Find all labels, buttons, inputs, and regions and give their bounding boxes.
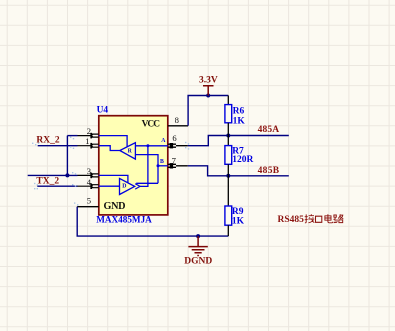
resistor R7 body <box>225 146 232 165</box>
wire RX_2 net to pin 1 <box>38 145 78 147</box>
svg-text:7: 7 <box>172 155 177 165</box>
svg-text:4: 4 <box>87 177 92 187</box>
resistor R9 lead top <box>227 176 229 206</box>
driver triangle D <box>120 178 135 194</box>
interior trace D output to A <box>140 146 148 187</box>
svg-text:R6: R6 <box>233 107 245 117</box>
CJK glyph dian (electric) <box>325 214 333 223</box>
interior trace B to R input <box>135 155 158 184</box>
power port 3.3V <box>203 86 214 96</box>
ground symbol DGND <box>188 236 207 255</box>
compile mask dots near pin6 <box>185 142 189 150</box>
interior trace A to R input <box>135 145 167 147</box>
svg-text:8: 8 <box>175 115 179 125</box>
svg-text:1K: 1K <box>232 216 245 226</box>
pin 1 line <box>78 143 99 149</box>
pin 5 line <box>77 206 99 208</box>
svg-text:DGND: DGND <box>184 257 212 267</box>
resistor R7 lead bottom <box>227 164 229 176</box>
op-amp receiver triangle R <box>120 143 136 159</box>
resistor R9 lead bottom <box>227 225 229 236</box>
svg-text:TX_2: TX_2 <box>36 177 59 187</box>
resistor R6 lead bottom <box>227 123 229 136</box>
svg-text:2: 2 <box>87 126 91 136</box>
svg-text:1: 1 <box>85 136 89 146</box>
svg-text:3.3V: 3.3V <box>199 75 218 85</box>
pin 4 line <box>78 183 99 189</box>
wire pin7 to 485B <box>188 166 289 176</box>
svg-text:VCC: VCC <box>142 120 161 130</box>
interior trace pin2 enable <box>99 136 127 147</box>
pin 3 line <box>78 173 99 179</box>
interior trace B branch to pin7 <box>158 165 168 167</box>
CJK glyph lu (road) <box>334 214 344 222</box>
interior trace pin1 to R tip <box>99 146 120 151</box>
chip U4 body <box>99 116 168 215</box>
wire pin8 riser to VCC rail <box>188 96 228 126</box>
svg-text:6: 6 <box>172 133 177 143</box>
junction ground rail <box>196 234 200 238</box>
wire pin6 to 485A <box>188 136 289 146</box>
resistor R9 body <box>225 206 232 225</box>
svg-text:485B: 485B <box>258 166 280 176</box>
junction pin3 riser <box>65 173 69 177</box>
svg-text:5: 5 <box>87 196 91 206</box>
wire riser pin2 to pin3 net <box>66 136 68 176</box>
pin 7 line <box>168 163 188 168</box>
wire TX_2 net to pin 3 <box>28 174 78 176</box>
resistor R6 body <box>225 105 232 123</box>
svg-text:GND: GND <box>104 201 126 212</box>
junction 485A <box>226 134 230 138</box>
interior trace pin3 enable <box>99 175 128 183</box>
CJK glyph kou (mouth) <box>316 216 322 222</box>
pin 8 line <box>168 125 188 127</box>
compile mask dots near TX_2 <box>34 172 76 189</box>
svg-text:MAX485MJA: MAX485MJA <box>96 215 152 225</box>
svg-text:120R: 120R <box>232 155 253 165</box>
interior trace pin4 to D input <box>99 185 120 187</box>
svg-text:B: B <box>160 159 164 165</box>
resistor R7 lead top <box>227 136 229 146</box>
interior junction A <box>146 144 149 147</box>
interior junction B <box>157 164 160 167</box>
svg-text:1K: 1K <box>233 117 246 127</box>
svg-text:U4: U4 <box>97 105 109 115</box>
driver output arrow <box>135 184 140 189</box>
junction 485B <box>226 174 230 178</box>
pin 6 line <box>168 143 188 148</box>
svg-text:D: D <box>122 183 126 189</box>
compile mask dots near pin5 corner <box>74 202 78 205</box>
svg-text:485A: 485A <box>258 125 280 135</box>
CJK glyph jie (interface) <box>305 214 315 223</box>
svg-text:RS485: RS485 <box>278 215 305 225</box>
resistor R6 lead top <box>227 96 229 105</box>
svg-text:RX_2: RX_2 <box>36 136 59 146</box>
compile mask dots near RX_2 <box>32 137 74 150</box>
wire pin 2 stub <box>67 135 77 137</box>
svg-text:3: 3 <box>87 166 91 176</box>
wire to pin 4 <box>37 185 77 187</box>
wire pin5 to ground rail <box>77 207 228 236</box>
interior trace D inverted output to B <box>136 182 158 184</box>
junction VCC rail <box>206 94 210 98</box>
pin 2 line <box>78 133 99 139</box>
